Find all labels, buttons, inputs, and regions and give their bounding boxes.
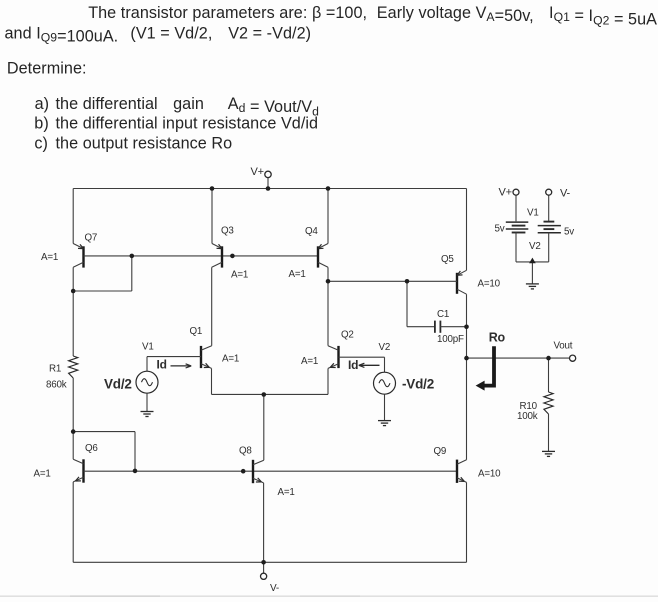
svg-text:Q4: Q4 xyxy=(305,226,318,237)
svg-text:A=1: A=1 xyxy=(34,469,51,480)
svg-text:Q2: Q2 xyxy=(341,330,354,341)
svg-text:860k: 860k xyxy=(46,380,67,391)
svg-text:V2 = -Vd/2): V2 = -Vd/2) xyxy=(228,24,311,42)
svg-text:A=1: A=1 xyxy=(278,487,295,498)
svg-text:Ro: Ro xyxy=(489,331,506,345)
svg-text:A=1: A=1 xyxy=(222,354,239,365)
svg-text:Q9: Q9 xyxy=(434,446,447,457)
svg-text:Q6: Q6 xyxy=(85,443,98,454)
svg-text:Id: Id xyxy=(157,358,167,372)
svg-text:A=10: A=10 xyxy=(478,279,501,290)
svg-text:100k: 100k xyxy=(517,411,538,422)
svg-text:Q1: Q1 xyxy=(190,326,203,337)
svg-text:the output resistance Ro: the output resistance Ro xyxy=(56,134,233,152)
svg-text:the differential input resista: the differential input resistance Vd/id xyxy=(56,115,319,133)
svg-text:V-: V- xyxy=(560,188,571,200)
svg-text:A=1: A=1 xyxy=(231,270,248,281)
svg-text:b): b) xyxy=(34,115,49,133)
svg-text:A=10: A=10 xyxy=(478,469,501,480)
svg-text:5v: 5v xyxy=(495,224,505,235)
svg-text:R1: R1 xyxy=(49,364,61,375)
svg-text:C1: C1 xyxy=(437,309,449,320)
svg-text:Vout: Vout xyxy=(554,341,573,352)
svg-text:V1: V1 xyxy=(142,342,154,353)
svg-text:-Vd/2: -Vd/2 xyxy=(402,377,434,392)
svg-text:Determine:: Determine: xyxy=(7,60,87,78)
svg-text:Q3: Q3 xyxy=(221,226,234,237)
svg-text:(V1 = Vd/2,: (V1 = Vd/2, xyxy=(130,24,212,42)
svg-text:A=1: A=1 xyxy=(41,252,58,263)
svg-text:V1: V1 xyxy=(527,208,539,219)
svg-text:5v: 5v xyxy=(564,227,574,238)
svg-text:V+: V+ xyxy=(499,187,512,199)
svg-text:Id: Id xyxy=(348,358,358,372)
svg-text:100pF: 100pF xyxy=(437,334,464,345)
svg-text:gain: gain xyxy=(173,95,204,113)
svg-text:the differential: the differential xyxy=(56,95,158,113)
svg-text:V-: V- xyxy=(270,583,279,594)
svg-text:V+: V+ xyxy=(251,166,264,178)
svg-text:Q7: Q7 xyxy=(85,233,98,244)
svg-text:The transistor parameters are:: The transistor parameters are: β =100, xyxy=(88,4,367,22)
svg-text:Q5: Q5 xyxy=(441,254,454,265)
svg-text:A=1: A=1 xyxy=(289,269,306,280)
svg-text:V2: V2 xyxy=(379,342,391,353)
svg-text:c): c) xyxy=(34,134,48,152)
svg-text:Vd/2: Vd/2 xyxy=(104,377,132,392)
svg-text:A=1: A=1 xyxy=(301,356,318,367)
svg-text:Q8: Q8 xyxy=(239,446,252,457)
svg-text:a): a) xyxy=(35,95,50,113)
svg-text:V2: V2 xyxy=(529,241,541,252)
